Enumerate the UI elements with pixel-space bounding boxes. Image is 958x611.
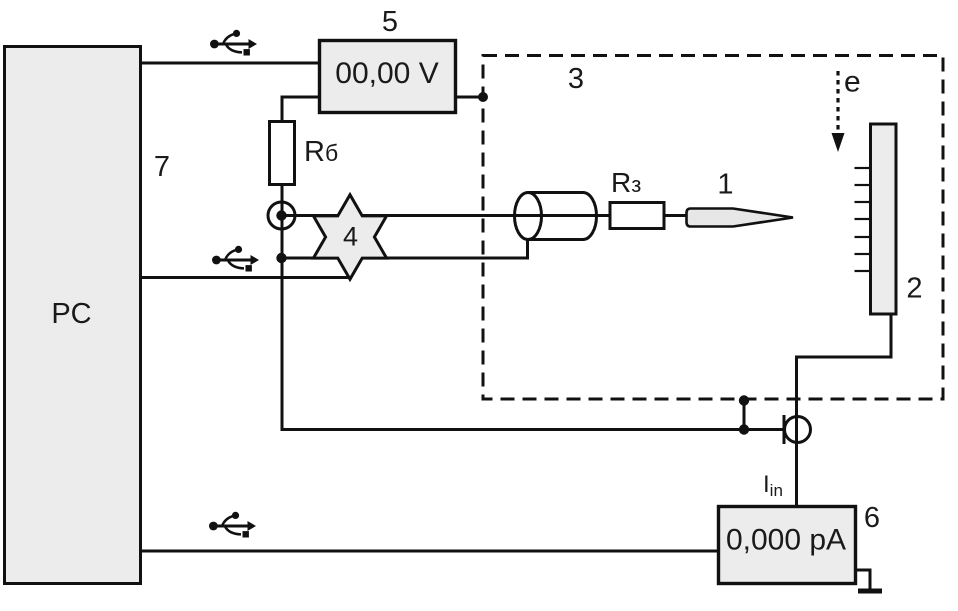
junction dot lower branch <box>276 253 286 263</box>
junction dot on node B wire <box>739 424 749 434</box>
resistor R3 <box>610 203 664 229</box>
wire PC to picoammeter 6 (USB link 3) <box>142 550 717 553</box>
USB icon 3 <box>209 512 256 538</box>
wire shield stub from box 3 to node B line <box>743 400 746 430</box>
ground symbol <box>856 570 882 591</box>
svg-text:1: 1 <box>717 169 733 201</box>
resistor R6 <box>270 122 295 185</box>
wire cylinder to resistor R3 <box>596 214 609 217</box>
svg-text:PC: PC <box>51 298 91 330</box>
wire resistor R6 bottom through node A down and right to node B <box>282 185 784 430</box>
wire node A to cylinder (needle feed line) <box>281 214 596 217</box>
shield box 3 (dashed) <box>483 56 943 400</box>
wire resistor R3 to needle 1 <box>664 214 687 217</box>
node B connector (bar and circle) <box>784 415 811 444</box>
svg-text:00,00 V: 00,00 V <box>335 57 438 90</box>
svg-text:e: e <box>844 66 861 99</box>
cylinder (coax holder) <box>515 193 597 240</box>
wire collector plate 2 down to node B and picoammeter <box>797 315 892 505</box>
star 4 <box>313 195 386 280</box>
wire PC to star 4 (USB link 2) <box>142 276 350 279</box>
svg-text:6: 6 <box>864 502 880 534</box>
electron beam arrow e <box>832 66 861 153</box>
svg-text:2: 2 <box>906 273 922 305</box>
picoammeter block 6 with display 0,000 pA <box>719 507 856 584</box>
node A circle with center dot <box>268 202 295 229</box>
PC block 7 <box>5 47 141 584</box>
USB icon 1 <box>210 30 257 56</box>
svg-text:3: 3 <box>568 63 584 95</box>
wire lower branch to cylinder shield <box>281 238 528 258</box>
collector plate 2 <box>855 124 923 314</box>
junction dot on shield box 3 bottom edge <box>739 395 749 405</box>
svg-text:7: 7 <box>154 151 170 183</box>
svg-text:5: 5 <box>382 6 398 38</box>
junction dot on shield box 3 at voltmeter wire <box>478 92 488 102</box>
plate comb teeth <box>855 168 871 271</box>
wire PC to voltmeter 5 (USB link) <box>142 62 318 65</box>
svg-text:Rз: Rз <box>611 167 641 198</box>
USB icon 2 <box>212 246 259 272</box>
needle electrode 1 <box>687 209 794 227</box>
wire voltmeter 5 right terminal to shield box 3 <box>457 96 483 99</box>
svg-text:4: 4 <box>343 222 358 252</box>
voltmeter block 5 with display 00,00 V <box>320 41 456 113</box>
svg-text:Rб: Rб <box>304 136 338 168</box>
svg-text:0,000 pA: 0,000 pA <box>726 524 846 557</box>
wire voltmeter 5 left terminal down to resistor R6 <box>282 97 318 121</box>
